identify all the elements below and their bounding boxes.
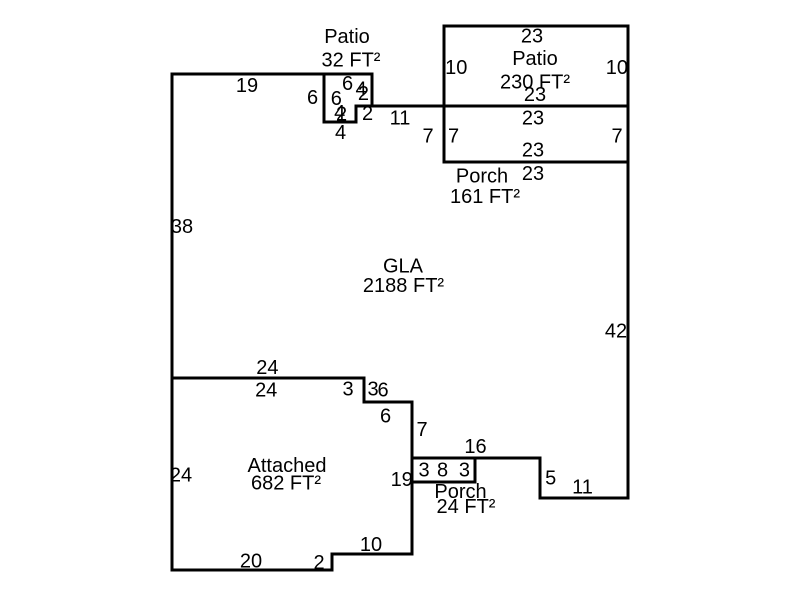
svg-text:23: 23 bbox=[522, 108, 544, 130]
svg-text:23: 23 bbox=[524, 84, 546, 106]
svg-text:6: 6 bbox=[342, 73, 353, 95]
svg-text:3: 3 bbox=[342, 378, 353, 400]
svg-text:5: 5 bbox=[545, 468, 556, 490]
svg-text:2: 2 bbox=[358, 83, 369, 105]
svg-text:6: 6 bbox=[380, 406, 391, 428]
svg-text:7: 7 bbox=[448, 126, 459, 148]
svg-text:3: 3 bbox=[418, 459, 429, 481]
svg-text:2: 2 bbox=[362, 103, 373, 125]
svg-text:7: 7 bbox=[416, 419, 427, 441]
svg-text:23: 23 bbox=[522, 139, 544, 161]
svg-text:19: 19 bbox=[236, 75, 258, 97]
svg-text:23: 23 bbox=[521, 26, 543, 48]
svg-text:11: 11 bbox=[390, 108, 411, 130]
svg-text:7: 7 bbox=[422, 126, 433, 148]
svg-text:23: 23 bbox=[522, 163, 544, 185]
svg-text:24: 24 bbox=[255, 380, 277, 402]
svg-text:2: 2 bbox=[313, 552, 324, 574]
svg-text:10: 10 bbox=[445, 57, 467, 79]
svg-text:24: 24 bbox=[256, 357, 278, 379]
svg-text:161 FT²: 161 FT² bbox=[450, 186, 520, 208]
svg-text:3: 3 bbox=[459, 459, 470, 481]
svg-text:6: 6 bbox=[307, 87, 318, 109]
svg-text:16: 16 bbox=[464, 436, 486, 458]
svg-text:11: 11 bbox=[572, 477, 593, 499]
svg-text:10: 10 bbox=[606, 57, 628, 79]
svg-text:4: 4 bbox=[335, 122, 346, 144]
svg-text:Patio: Patio bbox=[324, 26, 370, 48]
svg-text:GLA: GLA bbox=[383, 256, 424, 278]
svg-text:7: 7 bbox=[611, 126, 622, 148]
svg-text:682 FT²: 682 FT² bbox=[251, 473, 321, 495]
svg-text:38: 38 bbox=[171, 216, 193, 238]
svg-text:Porch: Porch bbox=[456, 166, 508, 188]
svg-text:2188 FT²: 2188 FT² bbox=[363, 275, 444, 297]
svg-text:42: 42 bbox=[605, 321, 627, 343]
svg-text:32 FT²: 32 FT² bbox=[322, 50, 381, 72]
svg-text:10: 10 bbox=[360, 534, 382, 556]
svg-text:24 FT²: 24 FT² bbox=[437, 496, 496, 518]
svg-text:19: 19 bbox=[391, 469, 413, 491]
svg-text:24: 24 bbox=[170, 464, 192, 486]
svg-text:8: 8 bbox=[437, 459, 448, 481]
svg-text:Patio: Patio bbox=[512, 48, 558, 70]
svg-text:6: 6 bbox=[377, 380, 388, 402]
svg-text:20: 20 bbox=[240, 551, 262, 573]
